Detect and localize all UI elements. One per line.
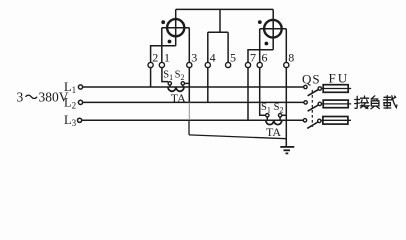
wire element P2 jog to terminal 7 (248, 50, 273, 63)
label 接负载 (drawn glyphs) (355, 96, 397, 109)
wire terminal 1 down to CT1 S1 (162, 68, 168, 82)
wire TA2 S1 stub to line (266, 117, 268, 120)
transformer CT TA2 secondary terminal S2 (278, 114, 281, 117)
wire element P2 current lead to terminal 8 (285, 29, 287, 63)
svg-text:4: 4 (210, 51, 216, 65)
svg-text:2: 2 (152, 51, 158, 65)
wire stub to terminal 5 (227, 32, 229, 62)
node terminal 5 (226, 62, 231, 67)
svg-text:FU: FU (329, 71, 350, 86)
transformer CT TA1 secondary terminal S1 (168, 82, 171, 85)
wire CT2 S2 stub (282, 114, 287, 116)
switch QS pole 2 (304, 101, 322, 111)
svg-text:QS: QS (302, 72, 321, 87)
wire phase line L3 (81, 119, 303, 121)
switch QS pole 1 (304, 85, 322, 96)
svg-text:S2: S2 (175, 70, 185, 82)
svg-text:L2: L2 (64, 95, 76, 110)
wire element P2 current lead to terminal 6 (259, 29, 261, 63)
wire element P1 current lead to terminal 3 (188, 28, 190, 63)
transformer CT TA2 winding bumps (266, 120, 282, 124)
node terminal 7 (245, 62, 250, 67)
switch QS pole 3 (303, 119, 321, 129)
svg-text:8: 8 (288, 51, 294, 65)
wire terminal 3 down to CT1 S2 junction (188, 68, 190, 103)
node terminal 3 (187, 62, 192, 67)
node polarity dot P1 lower (168, 40, 172, 44)
transformer CT TA1 secondary terminal S2 (181, 82, 184, 85)
wire TA1 S2 stub to line (182, 85, 184, 87)
wire S2 common down to ground bus (188, 120, 190, 135)
ground (280, 147, 294, 154)
wire phase line L2 (82, 101, 304, 103)
node terminal 8 (284, 62, 289, 67)
svg-text:3: 3 (17, 90, 24, 105)
wire terminal 7 down to L3 (247, 68, 249, 121)
wire QS mechanical linkage dashed (311, 90, 313, 127)
wire bus drop to element P2 (272, 9, 274, 20)
fuse FU3 (321, 117, 351, 125)
wire TA1 S1 stub to line (169, 85, 171, 87)
label 3~380V (17, 90, 69, 105)
svg-text:S1: S1 (261, 102, 271, 114)
node L2 source terminal (78, 100, 82, 104)
wire faint continuation of S2 common below L2 (188, 102, 190, 120)
op-amp meter element P1 circle (167, 19, 184, 36)
fuse FU2 (322, 100, 352, 108)
svg-text:TA: TA (171, 91, 186, 105)
svg-text:TA: TA (266, 125, 281, 139)
node terminal 6 (257, 62, 262, 67)
fuse FU1 (322, 85, 352, 93)
wire voltage-coil common bus (176, 8, 274, 10)
node terminal 4 (205, 62, 210, 67)
node polarity dot P2 upper (258, 20, 262, 24)
svg-text:L3: L3 (64, 113, 77, 128)
op-amp meter element P2 circle (264, 20, 282, 38)
wire terminal 8 down to CT2 S2 junction and ground (285, 68, 287, 147)
svg-text:5: 5 (230, 51, 236, 65)
wire element P2 voltage coil vertical (272, 20, 274, 50)
wire TA2 S2 stub to line (279, 117, 281, 120)
transformer CT TA1 winding bumps (168, 87, 184, 91)
node terminal 1 (159, 62, 164, 67)
svg-text:7: 7 (250, 51, 256, 65)
svg-text:L1: L1 (64, 80, 76, 95)
wire CT1 S2 stub (184, 82, 189, 84)
node L3 source terminal (78, 118, 82, 122)
wire element P1 voltage coil vertical (175, 19, 177, 46)
node L1 source terminal (78, 85, 82, 89)
transformer CT TA2 secondary terminal S1 (266, 114, 269, 117)
wire stub to terminal 4 (207, 32, 209, 62)
svg-text:S2: S2 (274, 102, 284, 114)
wire CT secondary common ground bus (189, 135, 287, 139)
wire element P1 current lead to terminal 1 (161, 28, 163, 63)
svg-text:3: 3 (191, 51, 197, 65)
wire terminal 6 down to CT2 S1 (260, 68, 266, 116)
wire bus middle drop to terminals 4,5 (219, 9, 221, 32)
wire element P2 current coil horizontal (260, 28, 287, 30)
svg-text:S1: S1 (163, 70, 173, 82)
node polarity dot P2 lower (265, 42, 269, 46)
wire element P1 jog to terminal 2 (151, 46, 176, 63)
wire terminal 2 down to L1 (150, 68, 152, 87)
svg-text:1: 1 (164, 51, 170, 65)
node terminal 2 (148, 62, 153, 67)
node polarity dot P1 upper (161, 20, 165, 24)
svg-text:6: 6 (262, 51, 268, 65)
wire element P1 current coil horizontal (162, 27, 190, 29)
wire terminal 4 down to L2 (207, 68, 209, 103)
wire T-bar over terminals 4,5 (208, 31, 228, 33)
wire phase line L1 (82, 86, 304, 88)
wire bus drop to element P1 (175, 9, 177, 19)
